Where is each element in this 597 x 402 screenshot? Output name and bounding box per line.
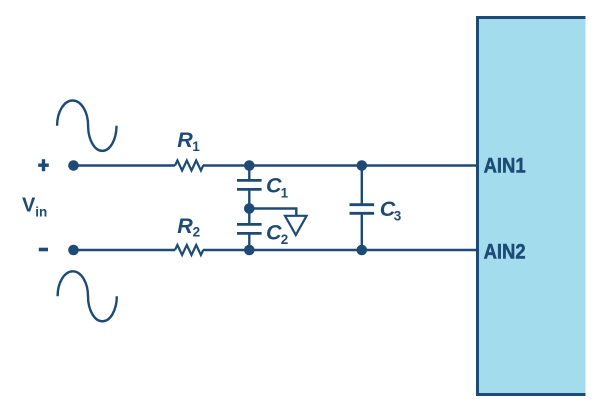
wire C1 branch top <box>248 166 250 181</box>
wire C2 to bottom <box>248 233 250 250</box>
capacitor C3 <box>350 203 375 206</box>
node bottom terminal <box>68 245 79 256</box>
svg-text:AIN2: AIN2 <box>484 239 526 263</box>
node top terminal <box>68 160 79 171</box>
svg-text:1: 1 <box>281 185 289 200</box>
svg-text:R: R <box>177 128 193 152</box>
node C3 bottom junction <box>357 245 368 256</box>
svg-text:1: 1 <box>192 139 200 154</box>
node C2 bottom junction <box>244 245 255 256</box>
node middle junction (C1/C2/ground) <box>244 203 255 214</box>
plus terminal symbol <box>38 159 49 171</box>
svg-text:2: 2 <box>281 232 289 247</box>
wire C3 branch top <box>361 166 363 205</box>
ground <box>285 216 307 235</box>
wire top right (R1 to AIN1) <box>203 164 478 166</box>
ac source sine bottom <box>58 271 117 321</box>
ac source sine top <box>57 100 116 150</box>
svg-text:2: 2 <box>193 224 201 239</box>
svg-text:in: in <box>35 205 47 220</box>
node C1 top junction <box>244 160 255 171</box>
svg-text:R: R <box>177 214 193 238</box>
wire bottom right (R2 to AIN2) <box>203 249 478 251</box>
svg-text:C: C <box>266 221 282 245</box>
wire top left (+ terminal to R1) <box>74 164 176 166</box>
ADC block <box>478 18 586 395</box>
wire C3 branch bottom <box>361 213 363 250</box>
wire ground tap <box>249 209 296 216</box>
wire C1 to middle node <box>248 190 250 225</box>
svg-text:V: V <box>22 194 36 216</box>
svg-text:AIN1: AIN1 <box>484 154 526 178</box>
svg-text:C: C <box>266 174 282 198</box>
resistor R1 <box>175 161 203 171</box>
capacitor C2 <box>237 223 262 226</box>
wire bottom left (- terminal to R2) <box>74 249 176 251</box>
minus terminal symbol <box>39 248 48 252</box>
resistor R2 <box>175 245 203 255</box>
node C3 top junction <box>357 160 368 171</box>
svg-text:3: 3 <box>394 209 402 224</box>
capacitor C1 <box>237 179 262 182</box>
